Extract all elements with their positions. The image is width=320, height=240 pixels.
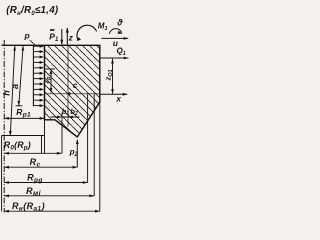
svg-text:z: z	[68, 33, 74, 43]
svg-text:p: p	[24, 31, 30, 41]
svg-text:ϑ: ϑ	[116, 18, 123, 28]
svg-text:a: a	[10, 84, 20, 89]
svg-text:R0(Rp): R0(Rp)	[4, 140, 31, 152]
svg-text:h: h	[1, 90, 11, 96]
svg-text:c: c	[73, 81, 78, 90]
